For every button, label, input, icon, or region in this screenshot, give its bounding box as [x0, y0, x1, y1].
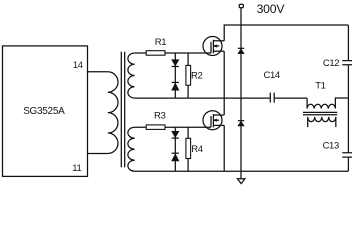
resistor R3 — [146, 125, 165, 129]
svg-text:14: 14 — [73, 60, 83, 71]
wire right rail middle — [347, 65, 349, 152]
wire right rail upper — [347, 25, 349, 60]
svg-text:R4: R4 — [191, 144, 202, 155]
zener diode upper clamp D1 — [172, 60, 179, 67]
transformer GDT core — [121, 52, 124, 168]
wire upper gate net — [135, 52, 211, 54]
ground — [237, 171, 245, 183]
wire ground rail — [135, 170, 349, 172]
transistor Q2 — [203, 111, 224, 130]
svg-text:SG3525A: SG3525A — [23, 106, 65, 117]
op-amp U1 SG3525A IC box — [3, 46, 88, 177]
wire Q2 source to ground rail — [223, 125, 225, 171]
resistor R1 — [146, 51, 165, 56]
wire midpoint rail left — [135, 97, 270, 99]
wire upper clamp branch — [174, 53, 176, 98]
wire midpoint to Q2 drain — [223, 98, 225, 115]
transformer GDT secondary 1 — [128, 53, 135, 98]
resistor R4 — [186, 127, 191, 171]
wire lower gate net — [135, 126, 211, 128]
wire 300V stub — [240, 8, 242, 25]
transformer T1 secondary winding — [308, 117, 336, 127]
transformer T1 core — [303, 112, 337, 114]
svg-text:R3: R3 — [154, 111, 165, 122]
transistor Q1 — [203, 37, 224, 56]
transformer T1 primary winding — [307, 98, 348, 109]
svg-text:C13: C13 — [323, 141, 339, 152]
transformer GDT secondary 2 — [128, 127, 135, 171]
svg-text:T1: T1 — [315, 81, 325, 92]
wire pin 11 — [88, 153, 108, 155]
svg-text:300V: 300V — [257, 2, 286, 16]
terminal 300V — [239, 4, 243, 8]
wire Q1 source to midpoint — [223, 51, 225, 98]
svg-text:C12: C12 — [323, 58, 339, 69]
capacitor C14 — [270, 93, 274, 103]
zener diode lower clamp D4 — [172, 153, 179, 161]
transformer GDT primary winding — [108, 72, 118, 154]
wire diode leg — [240, 25, 242, 171]
capacitor C13 — [342, 153, 352, 157]
capacitor C12 — [342, 61, 352, 65]
diode lower leg D6 — [238, 121, 244, 126]
zener diode lower clamp D3 — [172, 131, 179, 138]
wire pin 14 — [88, 71, 108, 73]
svg-text:11: 11 — [72, 163, 81, 174]
resistor R2 — [186, 53, 191, 98]
zener diode upper clamp D2 — [172, 82, 179, 90]
wire midpoint rail right — [275, 97, 307, 99]
wire lower clamp branch — [174, 127, 176, 171]
wire right rail lower — [347, 158, 349, 172]
svg-text:R2: R2 — [191, 71, 202, 82]
svg-text:R1: R1 — [155, 37, 166, 48]
svg-text:C14: C14 — [264, 70, 280, 81]
wire top rail 300V — [224, 25, 348, 41]
diode upper leg D5 — [238, 48, 244, 53]
